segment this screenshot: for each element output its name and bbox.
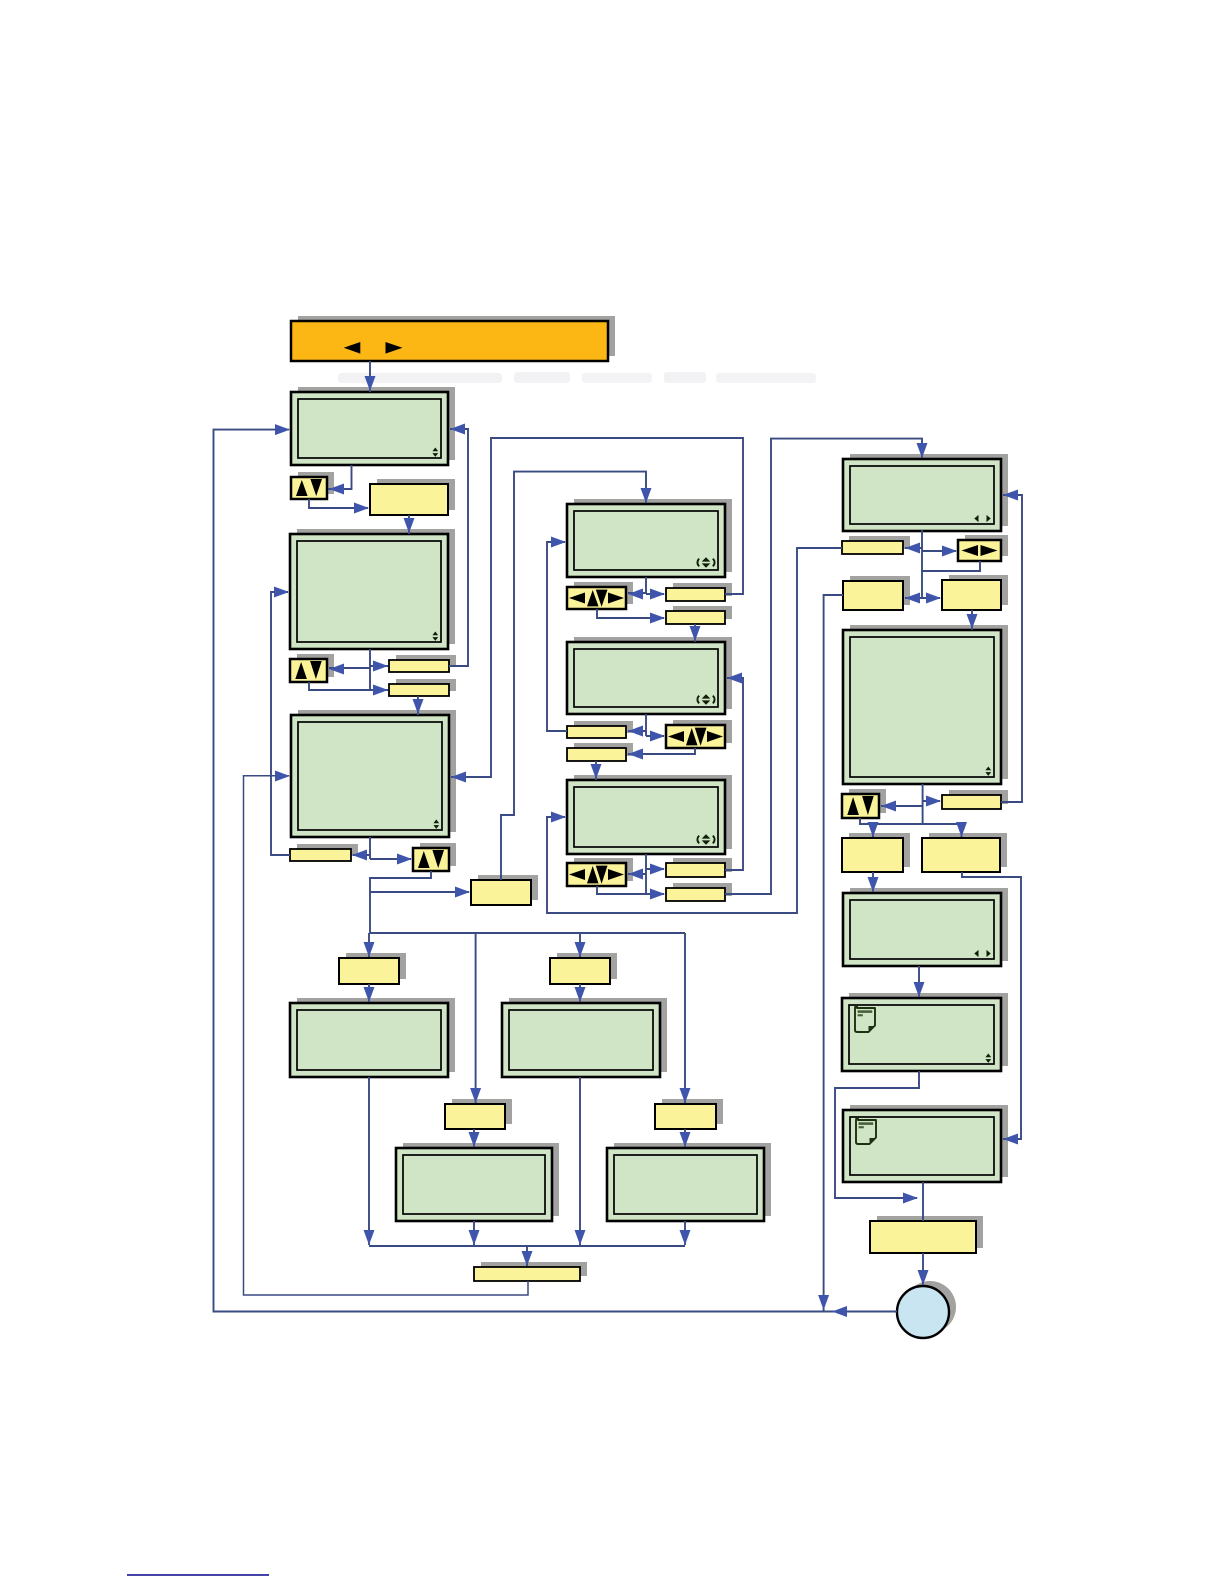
- screen M1: [567, 499, 732, 577]
- wire G4 down: [680, 1221, 691, 1245]
- wire M1 junction left: [628, 589, 646, 600]
- button bar2: [389, 679, 456, 696]
- wire S2 to UD2 and bar1: [369, 649, 371, 668]
- wire R2 junction left: [881, 801, 923, 812]
- wire Rbar to circle: [918, 1253, 929, 1285]
- wire S3 to barL and UD3: [369, 837, 371, 859]
- screen R5: [843, 1105, 1008, 1182]
- wire R1 junction: [921, 530, 923, 598]
- wire M1b to M2: [690, 624, 701, 642]
- wire R3 to R4: [914, 966, 925, 997]
- wire R5 to Rbar: [922, 1182, 924, 1221]
- button B2: [550, 953, 617, 984]
- wire M2 junction left: [628, 726, 646, 737]
- screen S2: [290, 529, 455, 649]
- button barL: [290, 844, 358, 861]
- screen M3: [567, 775, 732, 854]
- wire M3a loop to M2: [725, 673, 743, 871]
- screen G1: [290, 998, 455, 1077]
- wire S2 junction right: [370, 661, 388, 672]
- button Y1: [370, 479, 455, 515]
- wire LongBar loop to S3: [244, 771, 529, 1296]
- button R2c: [922, 833, 1007, 872]
- wire R2b to R3: [868, 872, 879, 892]
- screen R1: [843, 454, 1008, 531]
- button R1a: [842, 536, 910, 554]
- button M2a: [567, 721, 633, 738]
- wire S3 junction right: [370, 854, 412, 865]
- wire NAV3 to M3b: [597, 886, 665, 900]
- key NAV3 (4-way): [567, 858, 633, 886]
- wire S3 junction left: [352, 850, 370, 861]
- wire M3 junction: [645, 854, 647, 894]
- wire R1c to R2: [967, 610, 978, 630]
- wire M1a loop to S3: [451, 438, 743, 783]
- wire S1 to UD1: [328, 465, 352, 495]
- wire S2 junction left: [329, 664, 370, 675]
- wire R1 junction left: [905, 543, 922, 554]
- button B4: [655, 1099, 723, 1129]
- wire LR1 stub: [922, 561, 980, 571]
- wire rail to R2b: [868, 822, 879, 837]
- wire G1 down: [364, 1077, 375, 1245]
- wire bottom header rail: [370, 932, 685, 934]
- wire bar1 loop to S1: [449, 424, 468, 667]
- wire M3 junction right: [646, 864, 665, 875]
- wire R1 junction left2: [905, 593, 922, 604]
- screen G3: [396, 1143, 559, 1221]
- button M2b: [567, 743, 633, 761]
- wire G3 down: [469, 1221, 480, 1245]
- wire UD2 to bar2: [309, 666, 388, 696]
- footer rule: [127, 1574, 269, 1576]
- wire R1b down join: [818, 595, 843, 1311]
- button B3: [445, 1099, 512, 1129]
- wire M2b to M3: [591, 761, 602, 780]
- wire M3 junction left: [628, 869, 646, 880]
- wire B3 to G3: [469, 1129, 480, 1147]
- wire M2a loop to M1: [547, 537, 567, 732]
- screen M2: [567, 637, 732, 714]
- wire barL loop to S2: [271, 587, 290, 856]
- screen R4: [842, 993, 1008, 1071]
- wire M2 junction right: [646, 731, 665, 742]
- button LongBar: [474, 1262, 587, 1281]
- wire B2 to G2: [575, 984, 586, 1002]
- screen G2: [502, 998, 667, 1077]
- ghost heading remnant: [338, 372, 816, 383]
- wire M2 junction: [645, 714, 647, 736]
- wire NAV2 to M2b: [628, 748, 695, 760]
- header bar: [291, 316, 615, 361]
- wire rail to LongBar: [522, 1246, 533, 1266]
- wire B1 to G1: [364, 984, 375, 1002]
- key NAV1 (4-way): [567, 582, 633, 609]
- wire R2c to R5: [962, 872, 1021, 1145]
- wire rail to R2c: [956, 822, 967, 837]
- wire rail to B4: [680, 933, 691, 1103]
- button M3b: [666, 883, 732, 901]
- key UD3 (up/down): [413, 843, 456, 871]
- wire header to S1: [365, 361, 376, 392]
- wire OK up to M1: [501, 472, 652, 880]
- key NAV2 (4-way): [666, 720, 732, 748]
- screen G4: [607, 1143, 771, 1221]
- wire M1 junction right: [646, 589, 665, 600]
- wire R1 junction right2: [922, 593, 941, 604]
- button M3a: [666, 858, 732, 877]
- key UDR (up/down): [842, 789, 886, 818]
- wire B4 to G4: [680, 1129, 691, 1147]
- button Rbar: [870, 1216, 983, 1253]
- wire rail to B2: [575, 933, 586, 957]
- button bar1: [389, 655, 456, 672]
- wire bar2 to S3: [413, 696, 424, 715]
- wire R4 bypass: [835, 1071, 919, 1204]
- wire UD1 to Y1: [309, 499, 369, 514]
- wire R1a loop to M3: [547, 548, 842, 913]
- wire bottom collect rail: [369, 1245, 685, 1247]
- key UD2 (up/down): [290, 654, 334, 682]
- button R1b: [843, 576, 910, 610]
- button R2a: [942, 790, 1008, 809]
- wire M3b to R1: [725, 439, 928, 894]
- wire R2 junction right: [923, 796, 941, 807]
- wire R2 junction: [922, 784, 924, 824]
- button M1a: [666, 583, 732, 601]
- terminal circle: [897, 1281, 956, 1338]
- wire rail to B3: [470, 933, 481, 1103]
- button OK: [471, 875, 538, 905]
- wire UD3 down join: [370, 871, 431, 892]
- button R2b: [842, 833, 910, 872]
- wire junction to OK: [370, 887, 470, 898]
- wire G2 down: [575, 1077, 586, 1245]
- wire S3 junction down: [369, 892, 371, 933]
- wire NAV1 to M1b: [597, 609, 665, 624]
- wire rail to B1: [364, 933, 375, 957]
- key UD1 (up/down): [291, 472, 334, 499]
- wire circle loop to S1: [214, 424, 898, 1317]
- key LR1 (left/right): [958, 535, 1008, 561]
- wire Y1 to S2: [404, 515, 415, 534]
- screen R2: [843, 625, 1008, 784]
- wire R1 junction right: [922, 546, 957, 557]
- screen S1: [291, 387, 455, 465]
- wire M1 junction: [645, 577, 647, 594]
- screen S3: [291, 710, 456, 837]
- screen R3: [843, 888, 1008, 966]
- wire R2a loop to R1: [1001, 490, 1022, 803]
- button M1b: [666, 606, 732, 624]
- button B1: [339, 953, 406, 984]
- wire UDR stub rail: [860, 818, 962, 824]
- button R1c: [942, 575, 1008, 610]
